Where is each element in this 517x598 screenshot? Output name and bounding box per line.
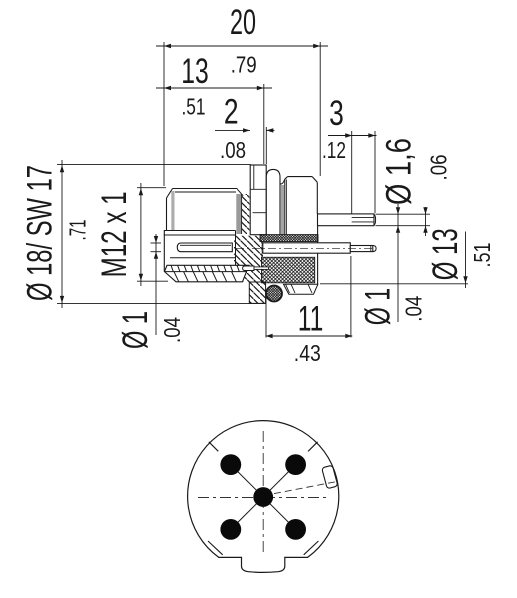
keyway notch [322,465,338,489]
dimension diameter 13 (.51) rear body [320,228,495,288]
pin connection lines [231,465,296,530]
svg-text:11: 11 [298,300,324,339]
centerlines [198,431,337,553]
dimension diameter 1,6 (.06) upper solder pin [376,138,452,322]
pin centerline [236,247,375,249]
dimension 3 (.12) pin tip length [322,94,377,226]
washer serration ticks [171,265,246,282]
thread shading gray strips [171,185,284,235]
svg-text:.06: .06 [426,155,452,181]
svg-text:Ø 1: Ø 1 [359,288,398,326]
hex flange SW17 [250,165,266,235]
seal lobe [266,169,285,235]
connector face outline with bottom tab [188,421,339,573]
bottom trapezoid plate [284,284,318,294]
dimension diameter 1 (.04) left contact pin [116,234,185,349]
svg-text:13: 13 [181,52,209,91]
dimension 13 (.51) thread length [156,52,272,164]
knurl band [260,235,318,242]
svg-text:.51: .51 [469,243,495,268]
dimension 20 (.79) overall width [156,3,328,186]
section hatch left of flange [234,194,263,282]
flange lower section hatched [249,282,265,303]
insulator cross-hatched block [262,243,315,283]
svg-text:.71: .71 [65,220,91,241]
svg-text:.04: .04 [159,317,185,343]
svg-text:2: 2 [224,93,239,132]
rim tick marks [208,442,318,555]
dimension diameter 1 (.04) lower solder pin [359,288,427,326]
dimension M12 x 1 thread [95,183,168,286]
left contact pin [177,243,232,252]
svg-text:.08: .08 [220,137,246,163]
svg-text:M12 x 1: M12 x 1 [95,191,134,277]
svg-text:Ø 18/ SW 17: Ø 18/ SW 17 [21,165,60,301]
upper solder pin [318,214,376,226]
svg-text:.79: .79 [231,51,257,77]
svg-text:.43: .43 [294,340,321,366]
svg-text:20: 20 [230,3,256,42]
svg-text:.12: .12 [322,137,346,163]
svg-text:3: 3 [329,94,344,133]
contact pins [220,454,306,540]
rear body outline [285,177,318,284]
lower solder pin [263,243,376,253]
dimension 11 (.43) rear length [266,256,353,366]
dimension diameter 18 / SW 17 (.71) flange [21,160,267,308]
svg-text:.04: .04 [401,296,427,322]
o-ring [266,286,282,302]
coding pin in slot [243,266,269,271]
serrated lock washer [165,265,250,282]
svg-text:Ø 13: Ø 13 [426,228,465,280]
svg-text:Ø 1,6: Ø 1,6 [380,138,419,205]
svg-text:Ø 1: Ø 1 [116,311,155,349]
barrel M12 thread outline [164,189,243,272]
dimension 2 (.08) flange thickness [215,93,275,165]
svg-text:.51: .51 [182,94,206,120]
